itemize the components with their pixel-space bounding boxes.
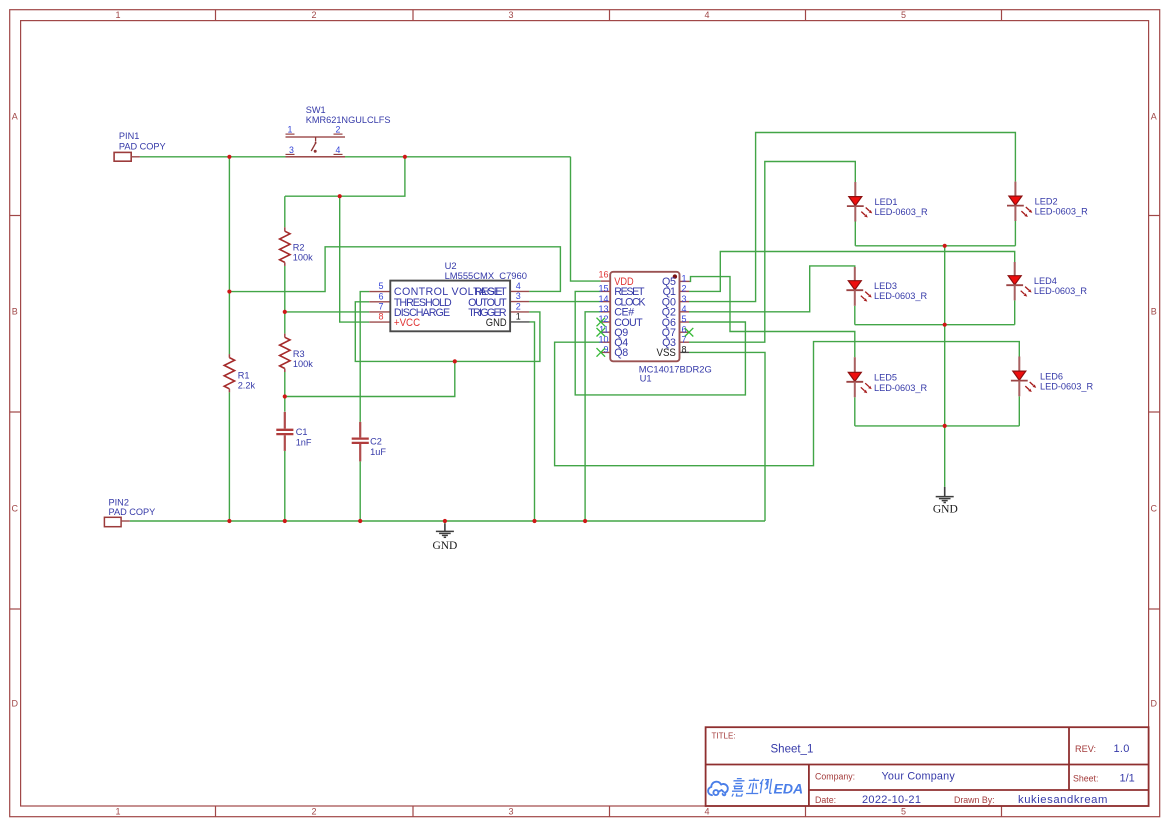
svg-text:Company:: Company: (815, 772, 855, 782)
svg-text:R2: R2 (293, 242, 305, 252)
wire R3 bottom to C1 (284, 372, 286, 412)
svg-text:3: 3 (289, 145, 294, 155)
wire 555 OUTOUT pin3 to U1 CLOCK pin14 (529, 301, 601, 303)
U2 pin stubs left (369, 291, 529, 322)
title block (706, 727, 1149, 806)
svg-text:1uF: 1uF (370, 447, 386, 457)
svg-text:C: C (12, 504, 19, 514)
svg-text:4: 4 (336, 145, 341, 155)
svg-text:2022-10-21: 2022-10-21 (862, 794, 921, 806)
no-connect X on U1 pin 9 (597, 348, 606, 357)
U1 body (610, 272, 679, 362)
node A wire junction (453, 359, 457, 363)
svg-text:3: 3 (516, 291, 521, 301)
wire LED1 cathode to rail1 (854, 222, 856, 246)
U2 body (390, 281, 510, 332)
svg-text:Sheet:: Sheet: (1073, 774, 1098, 784)
svg-text:Sheet_1: Sheet_1 (771, 744, 814, 756)
wire LED3 cathode to rail2 (854, 306, 856, 325)
wire R2 bottom to R3 top (284, 266, 286, 334)
connector PIN2 (104, 498, 155, 527)
svg-text:1: 1 (115, 10, 120, 20)
svg-text:16: 16 (598, 270, 608, 280)
LED1 (847, 182, 928, 222)
wire VCC node to 555 RESET pin4 (229, 247, 560, 292)
capacitor C1 (276, 412, 312, 451)
svg-text:100k: 100k (293, 359, 313, 369)
svg-text:LED-0603_R: LED-0603_R (1040, 382, 1093, 392)
svg-text:1/1: 1/1 (1120, 773, 1135, 785)
svg-text:VSS: VSS (657, 347, 676, 359)
svg-text:REV:: REV: (1075, 744, 1096, 754)
wire LED rails to GND (944, 246, 946, 487)
svg-text:4: 4 (704, 10, 709, 20)
svg-text:D: D (12, 699, 19, 709)
wire C2 bottom to PIN2 rail (359, 461, 361, 521)
wire GND stub on PIN2 rail (444, 521, 446, 523)
svg-text:SW1: SW1 (306, 105, 326, 115)
wire C1 bottom to PIN2 rail (284, 451, 286, 521)
svg-text:GND: GND (432, 540, 457, 552)
wire LED4 cathode to rail2 (1014, 300, 1016, 324)
svg-text:LED5: LED5 (874, 373, 897, 383)
wire DISCHARGE pin7 to R2R3 node (285, 311, 370, 313)
LED4 (1006, 262, 1087, 300)
svg-text:2: 2 (682, 284, 687, 294)
svg-text:A: A (1151, 112, 1157, 122)
svg-text:15: 15 (598, 284, 608, 294)
U1 pin8 VSS stub (680, 351, 690, 353)
svg-text:LED4: LED4 (1034, 276, 1057, 286)
svg-text:LED-0603_R: LED-0603_R (1034, 286, 1087, 296)
wire VSS pin8 to PIN2 rail (689, 352, 765, 521)
node R2R3 discharge (283, 310, 287, 314)
wire PIN2 rail (130, 520, 765, 522)
svg-text:PIN1: PIN1 (119, 131, 139, 141)
svg-text:1: 1 (516, 311, 521, 321)
wire rail3 LED5-LED6 cathodes (855, 425, 1020, 427)
svg-text:GND: GND (486, 317, 507, 329)
svg-text:GND: GND (933, 503, 958, 515)
EasyEDA logo (708, 782, 728, 796)
wire rail2 LED3-LED4 cathodes (855, 324, 1015, 326)
node PIN2-CE# (583, 519, 587, 523)
wire R2 top (284, 196, 286, 227)
svg-text:LED-0603_R: LED-0603_R (874, 383, 927, 393)
svg-text:6: 6 (378, 291, 383, 301)
resistor R3 (280, 334, 314, 372)
ground symbol mid (under 555) (432, 523, 457, 551)
LED3 (846, 267, 927, 306)
connector PIN1 (114, 131, 166, 161)
svg-text:3: 3 (508, 10, 513, 20)
wire VDD feed (571, 157, 601, 281)
wire Q3 pin7 to LED1 feed (689, 162, 855, 343)
svg-text:4: 4 (704, 807, 709, 817)
svg-text:PAD COPY: PAD COPY (119, 141, 166, 151)
svg-text:TITLE:: TITLE: (712, 732, 736, 741)
node R1 top tap (227, 289, 231, 293)
switch SW1 (286, 105, 391, 157)
resistor R2 (280, 227, 314, 266)
wire from node at x405 down and left to R2 (285, 157, 405, 196)
svg-text:LED3: LED3 (874, 281, 897, 291)
svg-text:1: 1 (288, 125, 293, 135)
svg-text:5: 5 (682, 314, 687, 324)
U2 pin names (394, 286, 503, 319)
svg-text:2: 2 (516, 301, 521, 311)
wire +VCC pin8 riser (340, 196, 370, 322)
ground symbol right (LED rails) (933, 487, 958, 515)
svg-text:1: 1 (115, 807, 120, 817)
svg-text:4: 4 (516, 281, 521, 291)
no-connect X on U1 pin 12 (597, 318, 606, 327)
no-connect X on U1 pin 11 (597, 328, 606, 337)
svg-text:2: 2 (311, 10, 316, 20)
wire THRESHOLD pin6 to wire A to TRIGGER pin2 (355, 302, 540, 362)
node rail1 gnd (943, 244, 947, 248)
svg-text:Your Company: Your Company (882, 771, 956, 783)
svg-text:Drawn By:: Drawn By: (954, 795, 995, 805)
svg-text:3: 3 (508, 807, 513, 817)
svg-text:+VCC: +VCC (394, 317, 420, 329)
svg-text:U1: U1 (640, 372, 652, 383)
svg-text:LED6: LED6 (1040, 371, 1063, 381)
svg-text:1nF: 1nF (296, 437, 312, 447)
wire node A branch down to R3C1 node (285, 361, 455, 396)
wire Q0 pin3 to LED2 feed (689, 133, 1015, 302)
svg-text:C1: C1 (296, 427, 308, 437)
svg-text:10: 10 (598, 334, 608, 344)
LED2 (1007, 182, 1088, 221)
svg-text:7: 7 (378, 301, 383, 311)
svg-text:B: B (1151, 307, 1157, 317)
svg-text:Date:: Date: (815, 795, 836, 805)
wire rail1 LED1-LED2 cathodes (855, 245, 1015, 247)
svg-text:LED2: LED2 (1035, 196, 1058, 206)
IC U2 LM555 timer (369, 260, 529, 331)
svg-text:13: 13 (598, 304, 608, 314)
no-connect X on U1 pin 6 (685, 328, 694, 337)
svg-text:D: D (1151, 699, 1158, 709)
U2 pin1 GND stub (510, 321, 529, 323)
node rail2 gnd (943, 323, 947, 327)
wire U1 CE# pin13 to PIN2 rail (585, 312, 601, 521)
wire LED2 cathode drop (1014, 221, 1016, 246)
svg-text:LM555CMX_C7960: LM555CMX_C7960 (445, 270, 527, 281)
svg-text:3: 3 (682, 294, 687, 304)
svg-text:5: 5 (901, 807, 906, 817)
wire 555 GND pin1 to PIN2 rail (530, 322, 535, 521)
svg-text:5: 5 (901, 10, 906, 20)
node PIN2-GND (443, 519, 447, 523)
wire PIN1 rail right of SW1 to VDD feed corner (345, 156, 571, 158)
svg-text:2: 2 (311, 807, 316, 817)
node PIN2-555GND (532, 519, 536, 523)
svg-text:2.2k: 2.2k (238, 381, 256, 391)
svg-text:2: 2 (336, 125, 341, 135)
LED6 (1011, 357, 1094, 397)
svg-text:Q8: Q8 (614, 347, 628, 359)
wire CONTROL VOLTAGE pin5 to C2 (360, 292, 369, 422)
node y196 VCC (338, 194, 342, 198)
wire Q2 pin4 to LED3 feed (689, 266, 855, 312)
node PIN1-SW out (403, 155, 407, 159)
node PIN1-R1 (227, 155, 231, 159)
wire U1 RESET pin15 to Q6 pin5 (575, 291, 745, 395)
wire PIN1 rail left of SW1 (140, 156, 286, 158)
svg-text:100k: 100k (293, 253, 313, 263)
svg-text:14: 14 (598, 294, 608, 304)
node R3C1 (283, 394, 287, 398)
U1 pin numbers right (682, 274, 687, 345)
svg-text:C2: C2 (370, 436, 382, 446)
U1 orientation dot (673, 274, 677, 278)
svg-text:LED-0603_R: LED-0603_R (875, 207, 928, 217)
node PIN2-C2 (358, 519, 362, 523)
wire R1 bottom to PIN2 rail (228, 392, 230, 521)
wire Q5 pin1 to LED5 feed (690, 277, 855, 358)
wire LED5 cathode to rail3 (854, 397, 856, 426)
svg-text:1: 1 (682, 274, 687, 284)
svg-text:A: A (12, 112, 18, 122)
svg-text:kukiesandkream: kukiesandkream (1018, 794, 1108, 806)
LED5 (846, 357, 927, 397)
U1 pin stubs left (601, 281, 690, 352)
svg-text:PAD COPY: PAD COPY (109, 507, 156, 517)
U2 pin numbers (378, 281, 383, 311)
capacitor C2 (352, 422, 387, 462)
wire Q4 pin10 to LED6 feed (555, 342, 1020, 466)
node rail3 gnd (943, 424, 947, 428)
svg-text:B: B (12, 307, 18, 317)
svg-text:EDA: EDA (774, 780, 804, 796)
svg-text:4: 4 (682, 304, 687, 314)
wire LED6 cathode drop (1018, 396, 1020, 426)
svg-text:1.0: 1.0 (1114, 743, 1130, 755)
svg-text:C: C (1151, 504, 1158, 514)
svg-text:LED-0603_R: LED-0603_R (874, 291, 927, 301)
svg-text:R1: R1 (238, 370, 250, 380)
IC U1 MC14017 (598, 270, 711, 384)
svg-text:LED1: LED1 (875, 197, 898, 207)
svg-text:KMR621NGULCLFS: KMR621NGULCLFS (306, 115, 391, 125)
svg-text:5: 5 (378, 281, 383, 291)
wire PIN1 node down to R1 (228, 157, 230, 354)
svg-text:LED-0603_R: LED-0603_R (1035, 207, 1088, 217)
svg-text:8: 8 (378, 312, 383, 322)
svg-text:8: 8 (682, 345, 687, 355)
svg-text:R3: R3 (293, 349, 305, 359)
wire Q1 pin2 to LED4 feed (689, 252, 1015, 292)
node PIN2-R1 (227, 519, 231, 523)
node PIN2-C1 (283, 519, 287, 523)
resistor R1 (224, 354, 255, 392)
